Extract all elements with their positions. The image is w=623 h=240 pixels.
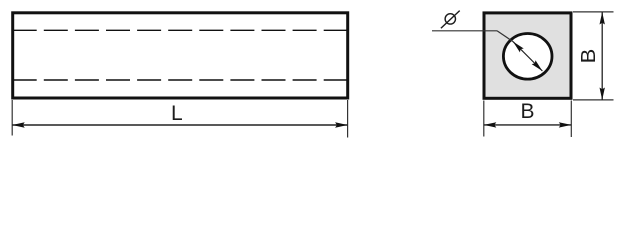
extension line left (L dimension): [11, 100, 13, 136]
arrowhead right (L): [335, 122, 348, 127]
extension line bottom (vertical B dimension): [573, 99, 614, 101]
side view outline (square tube, length L): [13, 13, 348, 98]
hidden line (bore) lower: [13, 79, 348, 81]
section view square (B x B) gray face: [484, 13, 571, 98]
extension line right (bottom B dimension): [570, 101, 572, 138]
svg-text:L: L: [171, 102, 183, 125]
dimension line vertical B: [601, 12, 603, 100]
extension line right (L dimension): [347, 100, 349, 138]
diameter symbol slash: [441, 11, 460, 29]
arrowhead lower-right (diameter): [532, 60, 545, 73]
diameter line inside bore: [513, 42, 542, 71]
svg-text:B: B: [520, 100, 534, 123]
arrowhead up (vertical B): [600, 12, 605, 25]
hidden line (bore) upper: [13, 29, 348, 31]
extension line top (vertical B dimension): [573, 11, 614, 13]
dimension line bottom B: [484, 124, 572, 126]
bore circle: [503, 34, 552, 80]
dimension line L: [12, 124, 347, 126]
arrowhead right (bottom B): [559, 122, 572, 127]
arrowhead left (L): [12, 122, 25, 127]
arrowhead left (bottom B): [484, 122, 497, 127]
svg-text:B: B: [578, 49, 600, 64]
leader line diagonal: [497, 31, 513, 42]
leader line horizontal (to diameter symbol): [432, 30, 497, 32]
extension line left (bottom B dimension): [483, 101, 485, 137]
arrowhead upper-left (diameter): [511, 40, 524, 53]
diameter symbol circle: [445, 14, 455, 24]
arrowhead down (vertical B): [600, 88, 605, 101]
